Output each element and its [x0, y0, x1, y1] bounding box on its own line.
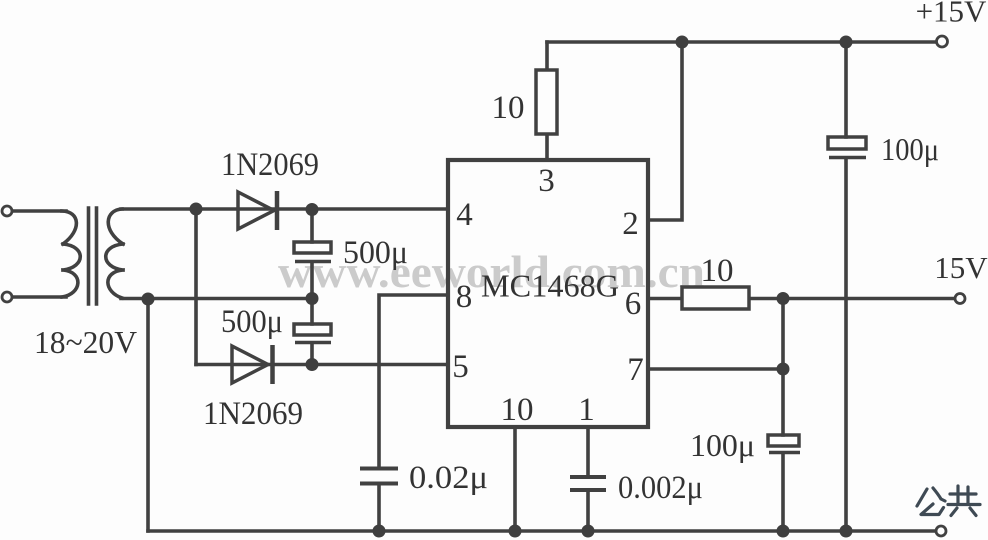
label: pin 6 — [625, 286, 642, 322]
wire: right vertical to C6 and rail — [781, 299, 785, 532]
terminal: AC in bottom — [2, 292, 12, 302]
label: pin 5 — [452, 349, 469, 385]
wire: C1 stubs — [310, 209, 314, 299]
node: rail C6 junction — [777, 525, 790, 538]
label: pin 10 — [501, 392, 534, 428]
node: rail C4 junction — [582, 525, 595, 538]
wire: secondary top to diode D1 and pin 4 — [121, 207, 448, 211]
label: 100u bottom — [690, 427, 755, 463]
wire: common left vertical down — [146, 299, 150, 531]
diode D2 1N2069 — [232, 345, 273, 384]
terminal: AC in top — [2, 206, 12, 216]
svg-text:1: 1 — [578, 392, 595, 428]
label: pin 8 — [456, 279, 473, 315]
capacitor C5 100u (top right) — [828, 137, 866, 158]
svg-text:8: 8 — [456, 279, 473, 315]
label: 10 top resistor — [492, 90, 525, 126]
wire: primary top lead — [12, 209, 66, 213]
wire: C2 stubs — [310, 299, 314, 365]
transformer T core — [89, 208, 97, 304]
label: 1N2069 top — [221, 147, 319, 183]
resistor R2 10 (horizontal) — [682, 287, 749, 309]
wire: pin 1 to 0.002u cap down to rail — [586, 427, 590, 531]
svg-text:6: 6 — [625, 286, 642, 322]
node: top rail pin2 junction — [676, 36, 689, 49]
wire: pin 6 to R2 to 15V terminal — [648, 297, 960, 301]
diode D1 1N2069 — [238, 191, 277, 230]
node: secondary bottom junction — [142, 293, 155, 306]
svg-text:0.02μ: 0.02μ — [409, 460, 488, 496]
IC U1 MC1468G outline — [448, 160, 648, 427]
capacitor C6 100u (bottom right) — [768, 435, 800, 453]
label: common (gong gong) — [917, 486, 980, 516]
svg-text:7: 7 — [627, 352, 644, 388]
label: 15V — [934, 250, 988, 285]
label: 0.002u — [618, 470, 703, 506]
watermark www.eeworld.com.cn — [278, 246, 705, 297]
label: 500u top — [343, 235, 408, 271]
svg-text:500μ: 500μ — [221, 304, 283, 340]
svg-text:5: 5 — [452, 349, 469, 385]
label: pin 1 — [578, 392, 595, 428]
svg-text:10: 10 — [501, 392, 534, 428]
node: top rail C5 junction — [840, 36, 853, 49]
wire: vertical from top node to diode D2 — [194, 209, 198, 365]
wire: primary bottom lead — [12, 295, 66, 299]
terminal: 15V output — [955, 294, 965, 304]
svg-text:MC1468G: MC1468G — [481, 268, 619, 304]
node: D2 cathode junction — [306, 358, 319, 371]
label: 0.02u — [409, 460, 488, 496]
wire: C5 stubs top and long down — [844, 42, 848, 531]
label: IC name MC1468G — [481, 268, 619, 304]
node: secondary top junction — [190, 203, 203, 216]
wire: pin 7 to right vertical — [648, 367, 783, 371]
svg-text:500μ: 500μ — [343, 235, 408, 271]
label: 10 right resistor — [701, 253, 734, 289]
node: D1 cathode junction — [306, 203, 319, 216]
svg-text:0.002μ: 0.002μ — [618, 470, 703, 506]
wire: pin 10 down to rail — [513, 427, 517, 531]
svg-text:2: 2 — [622, 206, 639, 242]
resistor R1 10 (vertical) — [536, 70, 557, 134]
label: pin 3 — [538, 163, 555, 199]
wire: pin 2 up to top rail — [648, 42, 682, 220]
svg-text:1N2069: 1N2069 — [221, 147, 319, 183]
terminal: common output — [936, 526, 946, 536]
node: rail C3 junction — [373, 525, 386, 538]
capacitor C2 500u — [294, 324, 331, 343]
wire: diode D2 to pin 5 — [196, 363, 448, 367]
svg-text:10: 10 — [701, 253, 734, 289]
label: 100u top — [881, 131, 939, 167]
terminal: +15V output — [937, 36, 948, 47]
svg-text:15V: 15V — [934, 250, 988, 285]
capacitor C4 0.002u — [570, 477, 606, 490]
node: rail C5 junction — [840, 525, 853, 538]
wire: pin 3 stub and resistor R1 leads — [545, 42, 549, 160]
wire: secondary bottom to capacitor node — [121, 297, 312, 301]
label: pin 4 — [456, 197, 473, 233]
label: pin 2 — [622, 206, 639, 242]
node: center cap junction — [306, 292, 319, 305]
wire: pin 8 to 0.02u cap down to rail — [379, 295, 448, 531]
label: 500u left — [221, 304, 283, 340]
transformer T secondary winding — [106, 209, 123, 298]
svg-text:3: 3 — [538, 163, 555, 199]
wire: bottom common rail — [148, 529, 941, 533]
label: pin 7 — [627, 352, 644, 388]
wire: +15V top rail — [547, 40, 942, 44]
label: 18~20V — [34, 324, 137, 360]
node: rail pin10 junction — [509, 525, 522, 538]
node: 15V output junction — [777, 292, 790, 305]
svg-text:10: 10 — [492, 90, 525, 126]
capacitor C3 0.02u — [360, 469, 398, 484]
transformer T primary winding — [62, 211, 80, 297]
svg-text:1N2069: 1N2069 — [203, 396, 303, 432]
svg-text:100μ: 100μ — [881, 131, 939, 167]
svg-text:4: 4 — [456, 197, 473, 233]
label: +15V — [916, 0, 987, 29]
svg-text:+15V: +15V — [916, 0, 987, 29]
svg-text:100μ: 100μ — [690, 427, 755, 463]
svg-text:18~20V: 18~20V — [34, 324, 137, 360]
node: pin 7 junction — [777, 363, 790, 376]
label: 1N2069 bottom — [203, 396, 303, 432]
capacitor C1 500u — [294, 242, 331, 262]
